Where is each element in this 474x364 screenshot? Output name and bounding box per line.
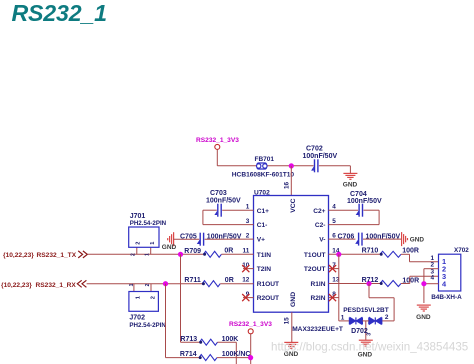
svg-text:16: 16 <box>284 181 291 189</box>
resistor R710 <box>380 251 401 257</box>
wire RX net <box>87 283 203 285</box>
svg-text:3: 3 <box>366 333 372 336</box>
svg-text:FB701: FB701 <box>255 156 275 163</box>
connector J701 <box>129 227 159 247</box>
label J702 <box>129 315 145 322</box>
pin numbers J701 <box>131 253 151 256</box>
label R710 <box>362 248 379 255</box>
svg-text:1: 1 <box>145 253 151 256</box>
svg-text:100K/NC: 100K/NC <box>222 351 251 358</box>
label X702 <box>454 247 469 254</box>
svg-text:RS232_1: RS232_1 <box>12 0 107 26</box>
wire 3V3 bottom stem <box>250 334 252 364</box>
wire R712 to X702 pin3 <box>401 276 439 283</box>
pin 8 R2IN right <box>310 291 339 302</box>
svg-text:GND: GND <box>343 182 358 189</box>
svg-text:T2OUT: T2OUT <box>304 266 326 273</box>
svg-text:R2OUT: R2OUT <box>257 295 279 302</box>
node RS232_1_3V3 (top net label) <box>196 137 239 144</box>
pin 3 C1- left <box>246 218 268 229</box>
wire FB701 to C702 and GND rail <box>268 166 351 173</box>
svg-text:C703: C703 <box>210 190 227 197</box>
svg-text:4: 4 <box>430 275 434 282</box>
svg-text:R1OUT: R1OUT <box>257 281 279 288</box>
junction RX / R711 / R714 <box>163 281 168 286</box>
svg-text:0R: 0R <box>225 277 234 284</box>
svg-text:2: 2 <box>246 232 250 239</box>
pin number 2 X702 <box>430 261 434 268</box>
svg-text:1: 1 <box>150 242 156 245</box>
svg-text:11: 11 <box>243 248 250 255</box>
pin 13 R1IN right <box>310 277 339 288</box>
capacitor C702 <box>311 159 318 172</box>
pin 5 C2- right <box>315 218 336 229</box>
svg-text:B4B-XH-A: B4B-XH-A <box>431 294 462 301</box>
svg-text:2: 2 <box>151 296 157 299</box>
wire D702 center to ground <box>362 321 368 340</box>
svg-text:12: 12 <box>242 277 250 284</box>
ground for X702 <box>416 305 431 321</box>
label FB701 <box>255 156 275 163</box>
resistor R711 <box>202 281 220 287</box>
svg-text:100nF/50V: 100nF/50V <box>207 234 242 241</box>
svg-text:VCC: VCC <box>290 198 297 212</box>
pin 4 C2+ right <box>313 203 336 214</box>
label R711 <box>184 277 200 284</box>
svg-text:GND: GND <box>162 244 177 251</box>
svg-text:R2IN: R2IN <box>310 295 325 302</box>
wire T1OUT junction down to D702 pin1 <box>339 254 350 321</box>
svg-text:MAX3232EUE+T: MAX3232EUE+T <box>292 326 343 333</box>
ground for D702 <box>358 340 373 358</box>
capacitor C706 <box>355 233 362 246</box>
svg-text:J702: J702 <box>129 315 145 322</box>
svg-text:GND: GND <box>410 237 425 244</box>
ground for C705 (left, rotated) <box>162 232 177 251</box>
svg-text:100nF/50V: 100nF/50V <box>303 153 338 160</box>
label PESD15VL2BT <box>343 307 389 314</box>
svg-text:15: 15 <box>284 317 291 325</box>
svg-text:U702: U702 <box>254 189 270 196</box>
svg-text:RS232_1_RX: RS232_1_RX <box>36 282 77 289</box>
svg-text:3: 3 <box>246 218 250 225</box>
svg-text:R710: R710 <box>362 248 379 255</box>
svg-text:2: 2 <box>385 314 389 321</box>
value R710 100R <box>402 248 419 255</box>
svg-text:100R: 100R <box>402 248 419 255</box>
wire C704 loop pin4/pin5 <box>329 210 380 224</box>
svg-text:V+: V+ <box>257 237 265 244</box>
label D702 <box>351 328 368 335</box>
label R713 <box>180 336 197 343</box>
ground pin15 <box>284 342 299 358</box>
svg-text:GND: GND <box>416 314 431 321</box>
pin 7 T2OUT right <box>304 262 339 273</box>
node RS232_1_3V3 (bottom net label) <box>229 321 272 328</box>
label R709 <box>184 248 201 255</box>
value C703 100nF/50V <box>206 197 241 204</box>
connector J702 <box>129 292 159 312</box>
diode D702 unit A (TVS) <box>349 317 362 324</box>
wire pin16 VCC <box>290 166 292 196</box>
value HCB1608KF-601T10 <box>232 171 295 178</box>
svg-text:X702: X702 <box>454 247 469 254</box>
wire TX net <box>88 253 204 255</box>
svg-text:C2+: C2+ <box>313 208 325 215</box>
label U702 <box>254 189 270 196</box>
port circle RS232_1_3V3 bottom <box>248 329 253 334</box>
wire 3V3 port down to rail <box>217 149 256 165</box>
wire C703 loop pin1/pin3 <box>203 210 254 224</box>
svg-text:J701: J701 <box>130 213 146 220</box>
pin 6 V- right <box>319 232 336 243</box>
svg-text:2: 2 <box>430 261 434 268</box>
svg-text:{10,22,23}: {10,22,23} <box>3 252 34 259</box>
svg-text:T1IN: T1IN <box>257 252 272 259</box>
svg-text:R713: R713 <box>180 336 197 343</box>
ground for C702 <box>343 173 358 188</box>
label C706 <box>338 234 355 241</box>
wire pin13 R1IN to R712 <box>329 283 381 285</box>
pin 14 T1OUT right <box>304 248 340 259</box>
label C705 <box>180 234 197 241</box>
pin number 1 X702 <box>430 255 434 262</box>
ferrite bead FB701 <box>257 163 268 169</box>
svg-text:0R: 0R <box>224 248 233 255</box>
svg-text:PH2.54-2PIN: PH2.54-2PIN <box>130 220 167 227</box>
pin 2 V+ left <box>246 232 265 243</box>
svg-text:V-: V- <box>319 237 325 244</box>
wire X702 pin4 to ground rail <box>424 283 439 285</box>
svg-text:1: 1 <box>341 315 345 322</box>
value C702 100nF/50V <box>303 153 338 160</box>
svg-text:{10,22,23}: {10,22,23} <box>1 282 32 289</box>
value R714 100K/NC <box>222 351 251 358</box>
port circle RS232_1_3V3 top <box>215 144 220 149</box>
svg-text:R714: R714 <box>180 351 197 358</box>
node RS232_1_TX label <box>3 252 77 259</box>
pin number 4 X702 <box>430 275 434 282</box>
label R712 <box>362 277 379 284</box>
pin number 2 D702 <box>385 314 389 321</box>
port arrow RX << <box>77 280 86 287</box>
wire TX junction down to R713 <box>181 254 200 342</box>
value R709 0R <box>224 248 233 255</box>
svg-text:T1OUT: T1OUT <box>304 252 326 259</box>
svg-text:C1-: C1- <box>257 222 268 229</box>
pin 15 GND wire <box>291 312 293 342</box>
svg-text:PH2.54-2PIN: PH2.54-2PIN <box>129 322 166 329</box>
svg-text:C706: C706 <box>338 234 355 241</box>
wire X702 pin2 to ground rail <box>424 269 439 303</box>
capacitor C704 <box>356 204 363 217</box>
value R711 0R <box>225 277 234 284</box>
svg-text:2: 2 <box>131 253 137 256</box>
svg-text:C705: C705 <box>180 234 197 241</box>
wire GND to C705 to V+ pin2 <box>174 238 254 240</box>
pin number 3 X702 <box>430 269 434 276</box>
svg-text:100nF/50V: 100nF/50V <box>366 234 401 241</box>
resistor R714 <box>199 355 217 361</box>
diode D702 unit B (TVS) <box>369 317 382 324</box>
svg-text:5: 5 <box>332 218 336 225</box>
svg-text:R1IN: R1IN <box>310 281 325 288</box>
wire R1IN junction down to D702 pin2 <box>369 284 394 321</box>
resistor R713 <box>199 339 217 345</box>
label C704 <box>350 191 367 198</box>
svg-text:R711: R711 <box>184 277 200 284</box>
junction R1IN / PESD <box>366 281 371 286</box>
port arrow TX >> <box>78 251 87 258</box>
wire R709 to pin11 <box>221 253 253 255</box>
wire pin6 V- to C706 to GND <box>329 238 402 240</box>
svg-text:RS232_1_3V3: RS232_1_3V3 <box>229 321 272 328</box>
value R712 100R <box>402 277 419 284</box>
junction T1OUT / PESD <box>336 252 341 257</box>
pin number 16 <box>284 181 291 189</box>
node RS232_1_RX label <box>1 282 76 289</box>
label C703 <box>210 190 227 197</box>
svg-text:R712: R712 <box>362 277 379 284</box>
pin number 1 D702 <box>341 315 345 322</box>
svg-text:RS232_1_3V3: RS232_1_3V3 <box>196 137 239 144</box>
svg-text:2: 2 <box>145 283 151 286</box>
svg-text:C704: C704 <box>350 191 367 198</box>
svg-text:C1+: C1+ <box>257 208 269 215</box>
value C706 100nF/50V <box>366 234 401 241</box>
svg-text:100nF/50V: 100nF/50V <box>347 198 382 205</box>
svg-text:R709: R709 <box>184 248 201 255</box>
value C704 100nF/50V <box>347 198 382 205</box>
value R713 100K <box>222 336 239 343</box>
pin 1 C1+ left <box>246 203 269 214</box>
svg-text:2: 2 <box>135 242 141 245</box>
wire pin14 T1OUT to R710 <box>329 253 381 255</box>
svg-text:C702: C702 <box>306 146 323 153</box>
connector X702 body <box>439 254 461 291</box>
pin name VCC (rotated) <box>290 198 297 212</box>
junction TX / R709 / R713 <box>178 252 183 257</box>
value B4B-XH-A <box>431 294 462 301</box>
svg-text:RS232_1_TX: RS232_1_TX <box>37 252 77 259</box>
resistor R709 <box>203 251 221 257</box>
ground for C706 (right, rotated) <box>402 232 425 246</box>
pin 10 T2IN left <box>242 262 271 273</box>
svg-text:GND: GND <box>290 292 297 307</box>
capacitor C703 <box>214 204 221 217</box>
junction R714 / 3V3 <box>248 355 253 360</box>
pin number 15 <box>284 317 291 325</box>
label J701 <box>130 213 146 220</box>
wire R713 to bottom edge <box>218 342 237 364</box>
wire J702 pin stubs <box>134 284 151 292</box>
svg-text:HCB1608KF-601T10: HCB1608KF-601T10 <box>232 171 295 178</box>
value J702 PH2.54-2PIN <box>129 322 166 329</box>
junction VCC rail / pin16 <box>289 163 294 168</box>
svg-text:1: 1 <box>136 296 142 299</box>
wire R710 to X702 pin1 <box>401 254 439 261</box>
svg-text:1: 1 <box>129 283 135 286</box>
pin numbers J702 <box>129 283 151 286</box>
svg-text:1: 1 <box>246 203 250 210</box>
pin name GND (rotated) <box>290 292 297 307</box>
svg-text:4: 4 <box>332 203 336 210</box>
label R714 <box>180 351 197 358</box>
op-amp/IC U702 MAX3232 body <box>254 196 329 313</box>
pin number 3 D702 (rotated) <box>366 333 372 336</box>
svg-text:https://blog.csdn.net/weixin_4: https://blog.csdn.net/weixin_43854435 <box>271 341 468 354</box>
wire R711 to pin12 <box>220 283 253 285</box>
value MAX3232EUE+T <box>292 326 343 333</box>
junction X702 ground <box>421 281 426 286</box>
svg-text:C2-: C2- <box>315 222 326 229</box>
value J701 PH2.54-2PIN <box>130 220 167 227</box>
wire RX junction down to R714 <box>166 284 200 358</box>
svg-text:100nF/50V: 100nF/50V <box>206 197 241 204</box>
label C702 <box>306 146 323 153</box>
svg-text:T2IN: T2IN <box>257 266 272 273</box>
capacitor C705 <box>197 233 204 246</box>
resistor R712 <box>380 281 401 287</box>
value C705 100nF/50V <box>207 234 242 241</box>
svg-text:6: 6 <box>332 232 336 239</box>
pin 9 R2OUT left <box>242 291 279 302</box>
pin 11 T1IN left <box>243 248 272 259</box>
svg-text:PESD15VL2BT: PESD15VL2BT <box>343 307 389 314</box>
pin 12 R1OUT left <box>242 277 279 288</box>
wire J701 pin stubs <box>137 247 151 254</box>
wire R714 to 3V3 junction <box>217 357 251 359</box>
